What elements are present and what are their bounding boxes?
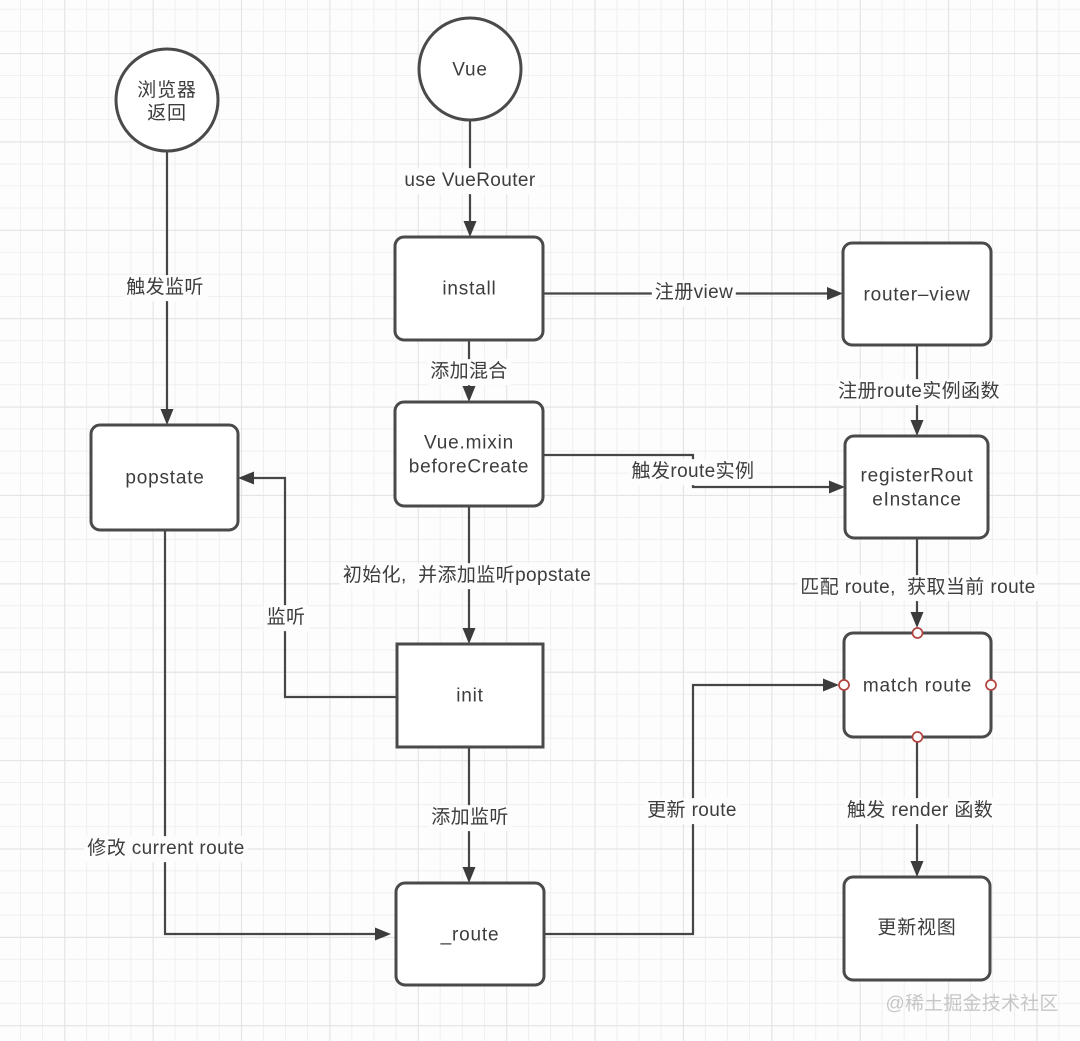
edge label add mixin bbox=[427, 359, 511, 385]
watermark bbox=[885, 989, 1058, 1016]
arrowhead into _route left bbox=[375, 928, 391, 941]
circle browser-back bbox=[116, 49, 218, 151]
edge label add listen bbox=[428, 805, 512, 831]
circle Vue bbox=[419, 18, 521, 120]
arrowhead into view-update bbox=[911, 861, 924, 877]
wire _route to match-route (step) bbox=[544, 685, 824, 934]
wire install to Vue.mixin bbox=[468, 340, 470, 387]
wire registerRouteInstance to match-route bbox=[916, 538, 918, 613]
edge label trigger-listen bbox=[123, 275, 207, 301]
wire Vue.mixin to init bbox=[468, 506, 470, 629]
box init (square corners) bbox=[397, 644, 543, 747]
edge label update route bbox=[644, 798, 740, 824]
arrowhead into Vue.mixin bbox=[463, 386, 476, 402]
edge label trigger render fn bbox=[844, 798, 996, 824]
box Vue.mixin beforeCreate bbox=[395, 402, 543, 506]
edge label register view bbox=[652, 280, 736, 306]
node label view-update bbox=[877, 916, 956, 940]
box view-update bbox=[844, 877, 990, 980]
node label match route bbox=[863, 674, 972, 698]
wire Vue.mixin to registerRouteInstance (step) bbox=[543, 455, 830, 487]
connection point match-route bottom bbox=[913, 732, 923, 742]
node label router-view bbox=[863, 283, 970, 307]
arrowhead into router-view bbox=[827, 287, 843, 300]
node label init bbox=[456, 684, 484, 708]
wire init to popstate (loop) bbox=[253, 478, 397, 697]
box install bbox=[395, 237, 543, 340]
node label Vue bbox=[452, 58, 488, 82]
box popstate bbox=[91, 425, 238, 530]
arrowhead into popstate right bbox=[238, 472, 254, 485]
node label browser-back bbox=[137, 79, 196, 125]
arrowhead into match-route top bbox=[911, 612, 924, 628]
node label _route bbox=[441, 923, 500, 947]
edge label match route get current bbox=[797, 575, 1038, 601]
edge label init and listen popstate bbox=[340, 563, 594, 589]
connection point match-route top bbox=[913, 628, 923, 638]
node label registerRouteInstance bbox=[860, 465, 973, 512]
box registerRouteInstance bbox=[845, 436, 988, 538]
edge label modify current route bbox=[84, 836, 247, 862]
arrowhead into registerRouteInstance top bbox=[911, 420, 924, 436]
arrowhead into init bbox=[463, 628, 476, 644]
arrowhead into install bbox=[464, 221, 477, 237]
edge label register route instance fn bbox=[835, 379, 1003, 405]
edge label trigger route instance bbox=[629, 459, 758, 485]
wire browser-circle to popstate bbox=[166, 151, 168, 410]
arrowhead into registerRouteInstance left bbox=[829, 481, 845, 494]
box match route bbox=[844, 633, 991, 737]
node label Vue.mixin beforeCreate bbox=[409, 432, 530, 479]
wire init to _route bbox=[468, 747, 470, 868]
node label install bbox=[442, 277, 496, 301]
arrowhead into match-route left bbox=[823, 679, 839, 692]
arrowhead into popstate top bbox=[161, 409, 174, 425]
box router-view bbox=[843, 243, 991, 345]
wire Vue to install bbox=[469, 120, 471, 222]
arrowhead into _route top bbox=[463, 867, 476, 883]
box _route bbox=[396, 883, 544, 985]
connection point match-route left bbox=[839, 680, 849, 690]
edge label listen bbox=[264, 605, 309, 631]
wire popstate to _route (elbow) bbox=[165, 530, 376, 934]
wire router-view to registerRouteInstance bbox=[916, 345, 918, 421]
connection point match-route right bbox=[986, 680, 996, 690]
edge label use VueRouter bbox=[401, 168, 538, 194]
node label popstate bbox=[125, 466, 204, 490]
wire match-route to view-update bbox=[916, 742, 918, 862]
wire install to router-view bbox=[543, 292, 828, 294]
